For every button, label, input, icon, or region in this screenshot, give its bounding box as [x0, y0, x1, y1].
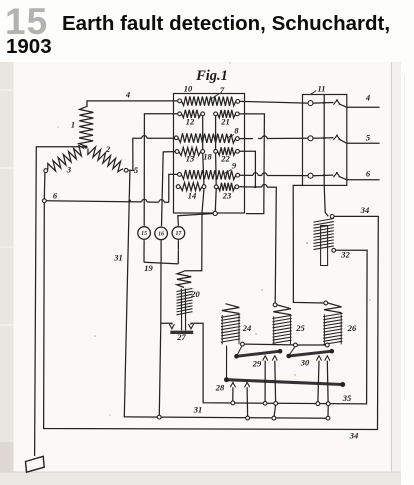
svg-text:4: 4 — [125, 90, 130, 100]
svg-text:14: 14 — [188, 191, 197, 201]
svg-text:25: 25 — [295, 323, 305, 333]
svg-text:2: 2 — [105, 144, 111, 154]
svg-text:35: 35 — [342, 393, 352, 403]
svg-text:24: 24 — [242, 323, 252, 333]
svg-text:26: 26 — [347, 323, 357, 333]
svg-text:3: 3 — [66, 165, 72, 175]
svg-text:4: 4 — [365, 93, 370, 103]
svg-text:32: 32 — [340, 250, 350, 260]
svg-text:17: 17 — [175, 231, 182, 237]
svg-text:31: 31 — [193, 405, 203, 415]
svg-text:34: 34 — [360, 205, 370, 215]
svg-text:28: 28 — [215, 383, 225, 393]
svg-text:30: 30 — [300, 358, 310, 368]
svg-text:10: 10 — [184, 84, 193, 94]
svg-text:13: 13 — [186, 154, 195, 164]
svg-text:19: 19 — [144, 263, 153, 273]
svg-text:18: 18 — [203, 152, 212, 162]
svg-text:Fig.1: Fig.1 — [195, 68, 228, 84]
svg-text:34: 34 — [349, 431, 359, 441]
svg-text:20: 20 — [190, 289, 200, 299]
svg-text:27: 27 — [176, 332, 186, 342]
svg-text:29: 29 — [252, 359, 262, 369]
svg-text:23: 23 — [222, 191, 232, 201]
svg-text:12: 12 — [186, 117, 195, 127]
svg-text:1: 1 — [71, 120, 75, 130]
svg-text:22: 22 — [220, 154, 230, 164]
svg-text:15: 15 — [141, 231, 147, 237]
svg-text:11: 11 — [317, 84, 325, 94]
svg-text:31: 31 — [113, 253, 123, 263]
svg-text:21: 21 — [220, 117, 230, 127]
svg-text:16: 16 — [158, 232, 164, 238]
